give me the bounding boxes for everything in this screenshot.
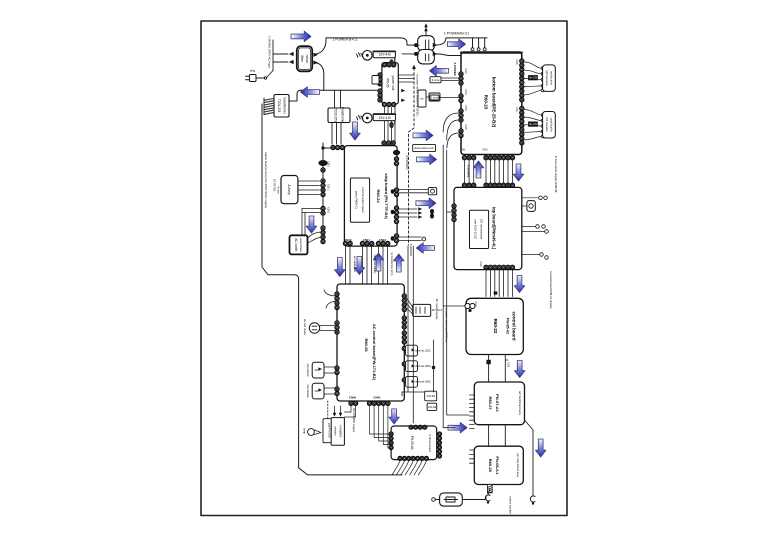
- wire W1 filter to relay block: [314, 38, 326, 54]
- small box CN-D2: [427, 403, 437, 410]
- svg-text:CN3: CN3: [327, 207, 331, 213]
- harness column CNC: [376, 241, 389, 245]
- svg-text:control board: control board: [511, 312, 516, 341]
- black mark on harness: [494, 291, 498, 294]
- T201 winding hatch: [264, 99, 274, 115]
- bottom board left CN6: [459, 129, 463, 138]
- arrow A5 into strip board: [350, 122, 360, 140]
- svg-text:X drive board: X drive board: [428, 434, 432, 452]
- svg-text:CN7: CN7: [515, 107, 519, 113]
- svg-text:ac supply live: ac supply live: [353, 256, 357, 273]
- svg-text:ST 8771B: ST 8771B: [273, 179, 277, 192]
- svg-text:CN12: CN12: [379, 238, 387, 242]
- svg-text:R60-25: R60-25: [488, 459, 493, 473]
- svg-text:PW-B5-A2: PW-B5-A2: [505, 318, 509, 334]
- fuse terminal circle: [432, 498, 436, 502]
- CN7 black mark: [391, 210, 395, 214]
- wire drive to PN-07: [443, 427, 455, 429]
- svg-text:CN-D1: CN-D1: [427, 394, 436, 398]
- T202 wires up: [334, 90, 336, 108]
- svg-text:CN-D2: CN-D2: [428, 405, 437, 409]
- svg-text:parts R6M-11: parts R6M-11: [354, 191, 358, 209]
- PN-06 left pin stubs: [470, 449, 475, 451]
- bottom board left CN3: [459, 72, 463, 85]
- svg-text:B+-CN: B+-CN: [530, 123, 538, 126]
- PN-05 left connectors CN1: [378, 73, 382, 86]
- svg-text:PN-06-A1: PN-06-A1: [495, 456, 500, 475]
- svg-text:CN9: CN9: [479, 261, 483, 267]
- speaker fan-out 1: [524, 62, 542, 68]
- svg-text:right speaker: right speaker: [545, 70, 549, 86]
- strip board R60-24: [344, 146, 397, 247]
- svg-text:T201-251: T201-251: [277, 99, 281, 113]
- wire PN-07 to earth hook: [525, 420, 534, 496]
- small box SB2: [429, 93, 440, 101]
- svg-text:unit KSS-213C: unit KSS-213C: [474, 219, 478, 240]
- svg-text:control audio spare: control audio spare: [361, 187, 365, 213]
- FAN2 connector label: [373, 114, 395, 121]
- svg-text:to power amp board R60-xx: to power amp board R60-xx: [445, 308, 449, 343]
- wires bottom board left: [441, 77, 459, 79]
- drive board bottom connector row: [398, 456, 428, 460]
- svg-text:CN40: CN40: [349, 396, 357, 400]
- svg-text:mains socket: mains socket: [509, 496, 513, 514]
- arrow A9: [416, 198, 436, 208]
- bottom board left CN5: [459, 109, 463, 122]
- svg-text:thermostat: thermostat: [306, 385, 310, 398]
- junction dot mid: [432, 366, 436, 370]
- A-Amp wires: [298, 180, 320, 182]
- wire mains lead to filter: [272, 40, 274, 71]
- svg-text:CN2: CN2: [482, 148, 488, 152]
- noise filter FL1: [297, 46, 312, 71]
- svg-text:CN6: CN6: [507, 362, 511, 368]
- svg-text:CD mechanism: CD mechanism: [480, 219, 484, 240]
- AC left edge connectors CN21: [335, 321, 339, 334]
- bottom board left CN4: [459, 94, 463, 103]
- stub box left of PN-05: [372, 76, 379, 85]
- svg-text:filter: filter: [300, 55, 304, 62]
- arrow A20: [448, 423, 467, 433]
- connector CN-T row: [331, 145, 344, 149]
- svg-text:CN6: CN6: [464, 124, 468, 130]
- wires CN4 to AC inlet: [308, 232, 321, 238]
- arrow A16 down: [513, 164, 523, 181]
- svg-text:12V-4-B: 12V-4-B: [378, 116, 391, 120]
- connector CN4 chain: [321, 226, 325, 244]
- svg-text:noise: noise: [305, 55, 309, 63]
- svg-text:to front panel display R6M-88: to front panel display R6M-88: [554, 156, 558, 193]
- strip board CN5 connector: [394, 157, 398, 166]
- connector blob pair: [430, 209, 434, 214]
- svg-text:bottom board(PE-25-B2): bottom board(PE-25-B2): [492, 77, 497, 128]
- CN6 black mark: [391, 189, 395, 193]
- svg-text:A SIGNAL: A SIGNAL: [409, 244, 413, 257]
- selector box: [331, 418, 344, 446]
- indicator lamp NE1: [308, 429, 315, 436]
- svg-text:1 POWER/B+C1: 1 POWER/B+C1: [444, 32, 469, 36]
- top board left connector chain: [452, 204, 456, 222]
- svg-text:A POWER: A POWER: [339, 425, 343, 438]
- arrow A12 down: [354, 257, 364, 275]
- label box 2-wire: [430, 95, 439, 100]
- svg-text:R60-23: R60-23: [484, 95, 489, 110]
- arrow A6 to AC inlet: [306, 216, 316, 233]
- svg-text:thermostat: thermostat: [306, 364, 310, 377]
- speaker fan-out 2: [524, 110, 542, 116]
- arrow A4 feed back: [301, 87, 320, 97]
- AC right edge CN30 cluster: [402, 294, 406, 312]
- transformer T202: [328, 108, 350, 123]
- svg-text:to head board R6M-21 display: to head board R6M-21 display: [549, 271, 553, 309]
- arrow A17 down: [514, 276, 524, 293]
- svg-text:A POWER: A POWER: [453, 62, 457, 75]
- svg-text:CN2: CN2: [327, 161, 331, 167]
- relay feed wires: [414, 43, 418, 47]
- svg-text:umbilical to: umbilical to: [550, 118, 554, 132]
- svg-text:A Amp: A Amp: [287, 184, 291, 194]
- PN-05 drop wires to strip board: [384, 107, 386, 145]
- strip board CN7 chain: [394, 206, 398, 224]
- PN-05 top connector row: [382, 63, 395, 67]
- control bus down: [488, 355, 490, 383]
- arrow A1 power flow: [291, 31, 311, 41]
- svg-text:A SIGNAL: A SIGNAL: [467, 165, 471, 178]
- svg-text:B+-CN: B+-CN: [530, 76, 538, 79]
- svg-text:thermal 145C: thermal 145C: [415, 380, 431, 384]
- svg-text:CN3: CN3: [464, 68, 468, 74]
- earth circle: [422, 237, 426, 241]
- arrow A11 down: [335, 258, 345, 277]
- svg-text:1 MAINS 240V AC input: 1 MAINS 240V AC input: [267, 36, 271, 68]
- AC control board R60-26: [337, 284, 404, 401]
- top board inner mech box: [470, 210, 489, 248]
- arrow A2: [448, 39, 466, 49]
- trunk wire left: [322, 143, 324, 226]
- top board R60-21: [454, 187, 522, 269]
- arrow A15 up: [473, 161, 483, 178]
- power relay block RY201: [418, 36, 435, 64]
- svg-text:3 core: 3 core: [432, 78, 440, 82]
- long wires right side: [412, 246, 414, 423]
- top board top CN2 row: [484, 183, 515, 187]
- thermal breaker TB3: [402, 378, 406, 382]
- relay unit box: [413, 304, 431, 316]
- switch group 2: [540, 253, 544, 257]
- svg-text:12V-4-B: 12V-4-B: [378, 53, 391, 57]
- connector CN3: [321, 206, 325, 215]
- svg-text:plug: plug: [250, 69, 256, 73]
- wire to control via left: [447, 211, 452, 213]
- bottom board right CN6 cluster: [520, 59, 524, 102]
- arrow A21: [389, 409, 399, 424]
- harness column CNA: [343, 241, 352, 245]
- svg-text:to transformer prim: to transformer prim: [390, 253, 394, 276]
- AC left edge connectors CN20: [335, 292, 339, 310]
- svg-text:CN1: CN1: [327, 184, 331, 190]
- fan motor FAN1: [356, 51, 372, 61]
- wire W2 filter lower to transformer bus: [314, 63, 324, 91]
- svg-text:a/c multi board assy: a/c multi board assy: [518, 391, 522, 416]
- photo sensor circles: [539, 196, 543, 200]
- bus PN-07 to PN-06: [488, 425, 490, 447]
- svg-text:unswitched: unswitched: [299, 238, 303, 252]
- power switch S1: [264, 77, 266, 79]
- fan motor FAN2: [356, 113, 372, 123]
- AC left edge connectors CN23: [335, 387, 339, 396]
- wire W3 horizontal feed bus: [301, 89, 378, 91]
- svg-text:AC outlet: AC outlet: [294, 238, 298, 251]
- arrow A18 down: [515, 361, 525, 378]
- svg-text:top board(PNm49-4L): top board(PNm49-4L): [492, 207, 497, 250]
- top board bottom CN row: [484, 265, 515, 269]
- svg-text:transformer: transformer: [340, 107, 344, 124]
- wire relay to 1-POWER line: [436, 38, 487, 45]
- drive board right connector: [438, 432, 442, 458]
- speaker umbilical right: [543, 65, 556, 92]
- svg-text:selector: selector: [334, 426, 338, 436]
- arrow A7: [413, 130, 433, 140]
- svg-text:mains lead (2-core) AC-240V 50: mains lead (2-core) AC-240V 50Hz supply: [264, 152, 268, 209]
- decorative wire arcs: [324, 290, 337, 296]
- svg-text:thermistor unit: thermistor unit: [414, 146, 433, 150]
- strip board top connector row: [382, 141, 395, 145]
- label box thermistor: [413, 144, 436, 151]
- svg-text:PN-09-A1: PN-09-A1: [410, 436, 414, 450]
- arrow A14 up: [394, 254, 404, 272]
- svg-text:R60-26: R60-26: [364, 338, 369, 352]
- AC bottom CN41 row: [367, 401, 390, 405]
- strip board CN6 connector: [394, 188, 398, 197]
- transformer T201: [274, 95, 289, 118]
- wires AC to drive board: [370, 406, 390, 434]
- svg-text:umbilical to: umbilical to: [550, 71, 554, 85]
- power pcb unit PN-05: [382, 63, 398, 105]
- drive board PN-09: [391, 426, 437, 460]
- arrowheads signal out: [418, 207, 422, 211]
- svg-text:CN10: CN10: [344, 238, 352, 242]
- wires to top board col2: [485, 160, 487, 183]
- power indicator pcb box: [323, 419, 340, 443]
- harness column CNB: [360, 241, 373, 245]
- svg-text:thermal 135C: thermal 135C: [415, 364, 431, 368]
- PN-05 right wires: [399, 74, 414, 76]
- arrow A10: [416, 243, 434, 253]
- svg-text:R60-22: R60-22: [493, 319, 498, 334]
- svg-text:T202-253: T202-253: [333, 108, 337, 122]
- top board right jack: [527, 201, 535, 212]
- svg-text:lamp: lamp: [303, 428, 307, 434]
- black label B+CN 1: [528, 75, 538, 80]
- speaker umbilical left: [543, 112, 556, 139]
- svg-text:1 POWER B+C1: 1 POWER B+C1: [332, 38, 357, 42]
- wires curving down to long runs: [443, 113, 459, 132]
- relay internal contacts: [424, 40, 426, 49]
- wires to top board col1: [464, 160, 466, 183]
- svg-text:CN41: CN41: [373, 396, 381, 400]
- small box CN-D1: [425, 391, 437, 401]
- thermal breaker TB1: [402, 346, 406, 350]
- dotted link: [327, 401, 329, 419]
- control board R60-22: [466, 298, 523, 354]
- CN8 black mark: [391, 236, 395, 240]
- mains fuse F1: [440, 493, 463, 506]
- svg-text:CN6: CN6: [515, 59, 519, 65]
- bottom board R60-23: [461, 52, 522, 155]
- amp block A-Amp: [281, 176, 298, 204]
- black label B+CN 2: [528, 122, 538, 127]
- thermostat TH2: [312, 383, 324, 399]
- inner box control audio: [350, 178, 369, 222]
- thermostat TH1: [312, 362, 324, 378]
- selector feed arrowheads: [333, 413, 337, 417]
- coil below PN-06: [487, 485, 492, 493]
- AC bottom CN40 row: [349, 401, 358, 405]
- control board left connector: [443, 305, 464, 307]
- svg-text:thermal 125C: thermal 125C: [415, 349, 431, 353]
- strip board CN8: [394, 234, 398, 243]
- wires top board to control board: [485, 270, 487, 297]
- dashed line to power switch: [412, 65, 416, 69]
- svg-text:CN11: CN11: [363, 238, 370, 242]
- board PN-06-A1 R60-25: [474, 446, 523, 484]
- AC right edge CN31: [402, 316, 406, 329]
- arrow A19 down: [536, 439, 546, 457]
- svg-text:switched supply: switched supply: [373, 255, 377, 275]
- drive board left connector: [389, 432, 393, 450]
- svg-text:a/c relay board assy: a/c relay board assy: [516, 453, 520, 478]
- black mark on bus: [486, 360, 490, 364]
- connector CN1 chain: [321, 179, 325, 197]
- schematic border frame: [201, 21, 567, 516]
- PN-05 left connectors CN2: [378, 89, 382, 102]
- svg-text:4 core: 4 core: [277, 186, 281, 194]
- T202 wires down to strip board: [331, 123, 333, 145]
- thermal switch box: [428, 188, 436, 195]
- junction node: [321, 146, 324, 149]
- svg-text:a/c fan motor: a/c fan motor: [303, 319, 307, 335]
- arrow A13 up: [373, 253, 383, 271]
- wire fuse to earth hook: [462, 496, 486, 500]
- AC left edge connectors CN22: [335, 366, 339, 375]
- svg-text:PN-07-A1: PN-07-A1: [495, 394, 500, 413]
- svg-text:AC control board(PW-171-B2): AC control board(PW-171-B2): [372, 324, 377, 381]
- wire three drops into bottom board: [472, 38, 474, 48]
- bottom board bottom CN10 row: [462, 156, 475, 160]
- small box SB1: [418, 90, 426, 107]
- svg-text:R60-27: R60-27: [488, 396, 493, 410]
- fan motor M2: [309, 323, 319, 333]
- svg-text:transformer: transformer: [282, 98, 286, 115]
- svg-text:CN2: CN2: [474, 301, 478, 307]
- svg-text:CN1: CN1: [460, 148, 466, 152]
- mains earth mark: [425, 27, 427, 36]
- mains plug P1: [250, 75, 257, 82]
- wire to CN-D boxes: [402, 391, 425, 393]
- svg-text:CN5: CN5: [464, 105, 468, 111]
- drive board fan-out wires: [392, 461, 400, 475]
- AC inlet box: [290, 235, 308, 254]
- svg-text:AC POWER supply: AC POWER supply: [352, 408, 356, 433]
- drive board top connector row: [409, 425, 427, 429]
- wire relay to bottom board: [436, 54, 461, 56]
- bottom board right CN7 cluster: [520, 106, 524, 145]
- wire mains lead long run: [262, 104, 294, 275]
- svg-text:R60-24: R60-24: [376, 189, 381, 203]
- svg-text:A POWER+: A POWER+: [405, 156, 409, 171]
- wires CN3 left: [302, 208, 321, 210]
- bottom board bottom CN11 row: [484, 156, 515, 160]
- svg-text:2 core: 2 core: [431, 96, 439, 100]
- label box 3-wire: [430, 77, 441, 83]
- arrow A3: [430, 66, 449, 76]
- svg-text:left speaker: left speaker: [545, 117, 549, 132]
- connector CN2 black: [318, 160, 327, 166]
- switch group 1: [536, 225, 540, 229]
- svg-text:PN-05: PN-05: [385, 78, 389, 87]
- FAN1 connector label: [373, 51, 395, 58]
- svg-text:power unit: power unit: [391, 76, 395, 91]
- svg-text:AC mains supply: AC mains supply: [435, 299, 439, 321]
- svg-text:strip board (PN-TTP-B4): strip board (PN-TTP-B4): [384, 173, 389, 219]
- AC right edge CN32: [402, 331, 406, 344]
- thermal breaker TB2: [402, 362, 406, 366]
- earth hook right: [530, 496, 535, 502]
- earth hook centre: [488, 489, 490, 495]
- wires selector: [344, 406, 351, 412]
- arrow A8: [417, 154, 437, 164]
- board PN-07-A1 R60-27: [474, 382, 524, 425]
- PN-05 bottom connector row: [382, 102, 395, 106]
- svg-text:CN4: CN4: [464, 89, 468, 95]
- PN-07 left pin stubs: [470, 394, 475, 396]
- top board top CN1 row: [462, 183, 475, 187]
